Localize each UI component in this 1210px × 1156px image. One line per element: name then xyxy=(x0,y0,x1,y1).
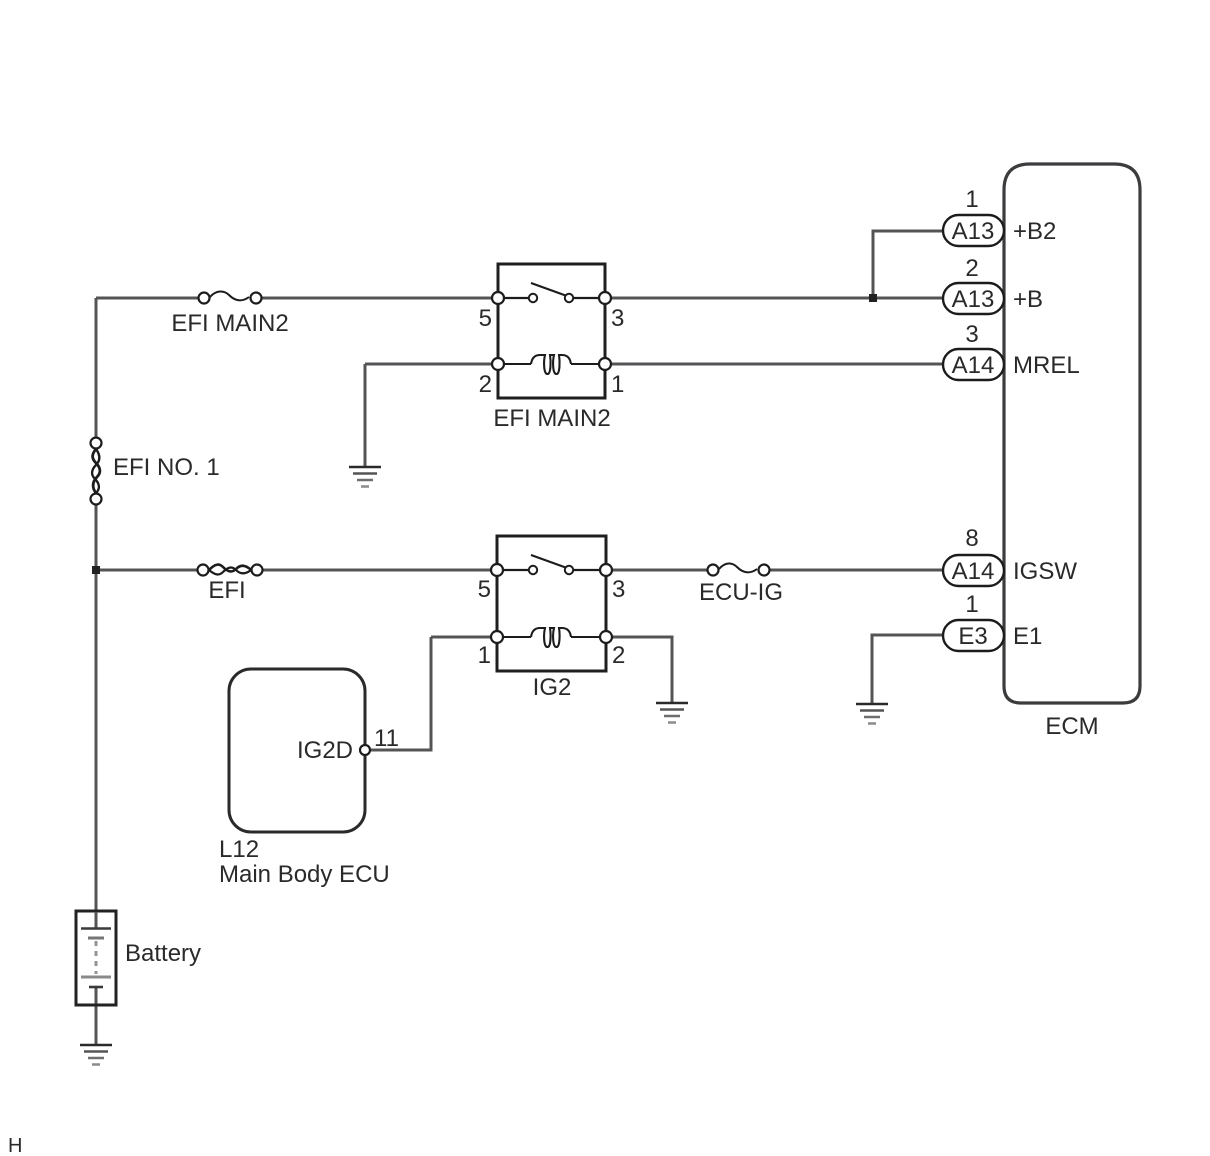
svg-text:3: 3 xyxy=(611,305,624,332)
svg-text:2: 2 xyxy=(479,371,492,398)
svg-text:IG2: IG2 xyxy=(533,674,572,701)
relay IG2 coil xyxy=(502,628,601,647)
wire: bus corner to fuse EFI MAIN2 xyxy=(96,297,198,300)
svg-text:IG2D: IG2D xyxy=(297,737,353,764)
svg-text:E1: E1 xyxy=(1013,623,1042,650)
wire: battery negative to ground xyxy=(95,986,98,1044)
relay IG2 box xyxy=(497,536,606,671)
svg-text:A14: A14 xyxy=(952,352,995,379)
fuse EFI MAIN2 (top) xyxy=(199,291,262,303)
relay IG2 switch contacts xyxy=(529,566,537,574)
relay EFI MAIN2 box xyxy=(498,264,605,398)
svg-text:5: 5 xyxy=(479,305,492,332)
Main Body ECU terminal IG2D pin 11 xyxy=(360,745,370,755)
svg-text:11: 11 xyxy=(374,725,399,752)
svg-text:L12: L12 xyxy=(219,836,259,863)
wire: branch up to +B2 xyxy=(873,231,943,298)
wire: IG2 coil pin 2 to ground xyxy=(611,637,672,702)
ground: EFI MAIN2 relay coil xyxy=(349,467,381,487)
connector A14 pin 3 (MREL) xyxy=(943,349,1004,380)
relay IG2 switch wires xyxy=(502,569,601,571)
relay EFI MAIN2 coil xyxy=(503,355,600,374)
svg-text:3: 3 xyxy=(612,576,625,603)
wire: relay coil pin 2 to ground stem xyxy=(365,363,493,366)
svg-text:MREL: MREL xyxy=(1013,352,1080,379)
Main Body ECU box L12 xyxy=(229,669,365,832)
wire: IG2 pin 3 to fuse ECU-IG xyxy=(611,569,708,572)
svg-text:ECM: ECM xyxy=(1045,713,1098,740)
wire: bus corner to fuse EFI NO. 1 xyxy=(95,298,98,438)
connector E3 pin 1 (E1) xyxy=(943,620,1004,651)
svg-text:2: 2 xyxy=(965,255,978,282)
svg-text:1: 1 xyxy=(478,642,491,669)
svg-text:1: 1 xyxy=(965,186,978,213)
relay IG2 switch blade xyxy=(531,555,567,568)
wire: ground stem at relay EFI MAIN2 coil xyxy=(364,364,367,467)
relay EFI MAIN2 switch contacts xyxy=(529,294,537,302)
svg-text:8: 8 xyxy=(965,525,978,552)
wire: IG2D riser to IG2 coil pin 1 xyxy=(431,636,492,639)
svg-text:5: 5 xyxy=(478,576,491,603)
svg-text:3: 3 xyxy=(965,321,978,348)
relay EFI MAIN2 switch blade xyxy=(531,283,567,296)
svg-text:EFI MAIN2: EFI MAIN2 xyxy=(171,310,288,337)
connector A14 pin 8 (IGSW) xyxy=(943,555,1004,586)
svg-text:Main Body ECU: Main Body ECU xyxy=(219,861,390,888)
wire: E1 to ground xyxy=(872,635,943,703)
svg-text:1: 1 xyxy=(965,591,978,618)
relay EFI MAIN2 terminals xyxy=(492,292,611,370)
fuse ECU-IG xyxy=(708,563,770,575)
wire: fuse EFI to IG2 pin 5 xyxy=(262,569,492,572)
fuse EFI (fusible link) xyxy=(198,565,263,576)
svg-text:1: 1 xyxy=(611,371,624,398)
svg-text:ECU-IG: ECU-IG xyxy=(699,579,783,606)
wire: fuse EFI NO. 1 to battery xyxy=(95,504,98,912)
junction at +B branch xyxy=(869,294,877,302)
battery xyxy=(76,911,116,1005)
svg-text:H: H xyxy=(8,1135,22,1156)
svg-text:EFI NO. 1: EFI NO. 1 xyxy=(113,454,220,481)
svg-text:+B: +B xyxy=(1013,286,1043,313)
svg-text:EFI: EFI xyxy=(208,577,245,604)
svg-text:EFI MAIN2: EFI MAIN2 xyxy=(493,405,610,432)
svg-text:+B2: +B2 xyxy=(1013,218,1056,245)
junction at battery bus / EFI fuse xyxy=(92,566,100,574)
wire: IG2D terminal to riser xyxy=(371,637,431,750)
svg-text:E3: E3 xyxy=(958,623,987,650)
connector A13 pin 2 (+B) xyxy=(943,283,1004,314)
svg-text:2: 2 xyxy=(612,642,625,669)
ECM box xyxy=(1004,164,1140,703)
connector A13 pin 1 (+B2) xyxy=(943,215,1004,246)
svg-text:IGSW: IGSW xyxy=(1013,558,1077,585)
fuse EFI NO. 1 (vertical fusible link) xyxy=(91,438,102,505)
svg-text:Battery: Battery xyxy=(125,940,201,967)
wire: relay pin 1 to MREL A14 xyxy=(610,363,943,366)
wire: bus junction to fuse EFI xyxy=(96,569,198,572)
wire: fuse ECU-IG to IGSW A14 xyxy=(770,569,943,572)
relay EFI MAIN2 switch wires xyxy=(503,297,600,299)
ground: ECM E1 xyxy=(856,704,888,724)
ground: battery xyxy=(80,1045,112,1065)
svg-text:A13: A13 xyxy=(952,218,995,245)
svg-text:A14: A14 xyxy=(952,558,995,585)
wire: relay pin 3 to +B A13 xyxy=(610,297,943,300)
ground: IG2 relay coil xyxy=(656,703,688,723)
svg-text:A13: A13 xyxy=(952,286,995,313)
relay IG2 terminals xyxy=(491,564,612,643)
wire: fuse EFI MAIN2 to relay pin 5 xyxy=(262,297,493,300)
